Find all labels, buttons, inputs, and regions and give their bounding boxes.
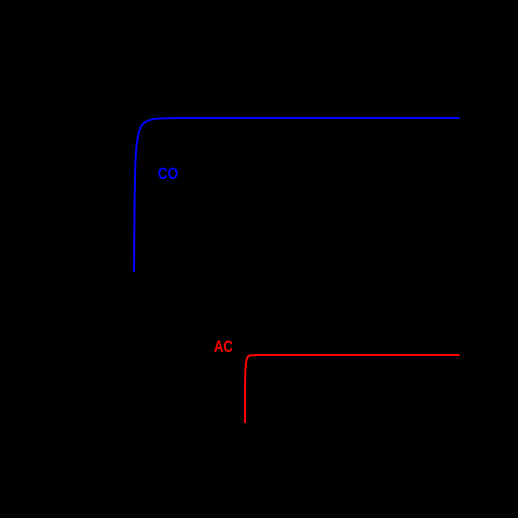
curve CO (blue saturation curve) — [134, 118, 460, 272]
curve AC (red saturation curve) — [245, 355, 460, 423]
svg-text:CO: CO — [158, 164, 179, 183]
svg-text:AC: AC — [214, 337, 233, 356]
